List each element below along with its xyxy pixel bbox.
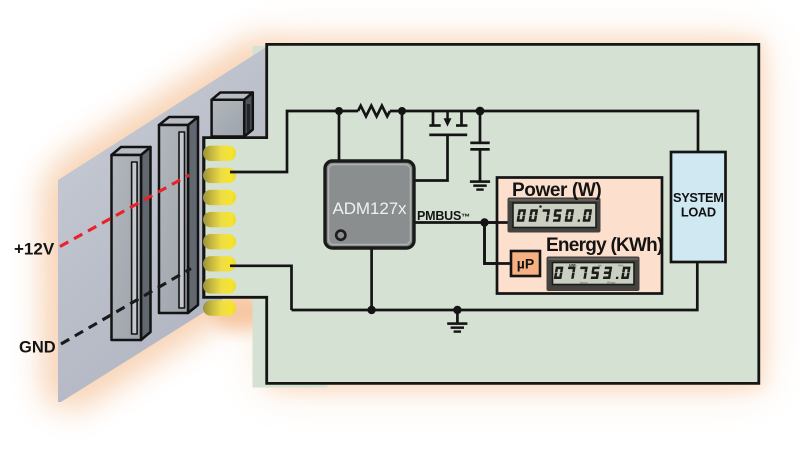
svg-text:VAh: VAh: [618, 264, 624, 268]
svg-text:Wmax: Wmax: [607, 281, 616, 285]
svg-text:Energy (KWh): Energy (KWh): [546, 235, 663, 256]
svg-text:Power (W): Power (W): [512, 180, 601, 201]
svg-text:PMBUS™: PMBUS™: [417, 209, 470, 223]
svg-text:+12V: +12V: [14, 240, 55, 259]
svg-text:SYSTEM: SYSTEM: [673, 190, 724, 205]
svg-text:µP: µP: [517, 256, 534, 272]
svg-text:hours: hours: [580, 281, 588, 285]
svg-text:ADM127x: ADM127x: [333, 199, 408, 218]
svg-text:GND: GND: [19, 339, 56, 357]
svg-text:LOAD: LOAD: [681, 205, 716, 220]
